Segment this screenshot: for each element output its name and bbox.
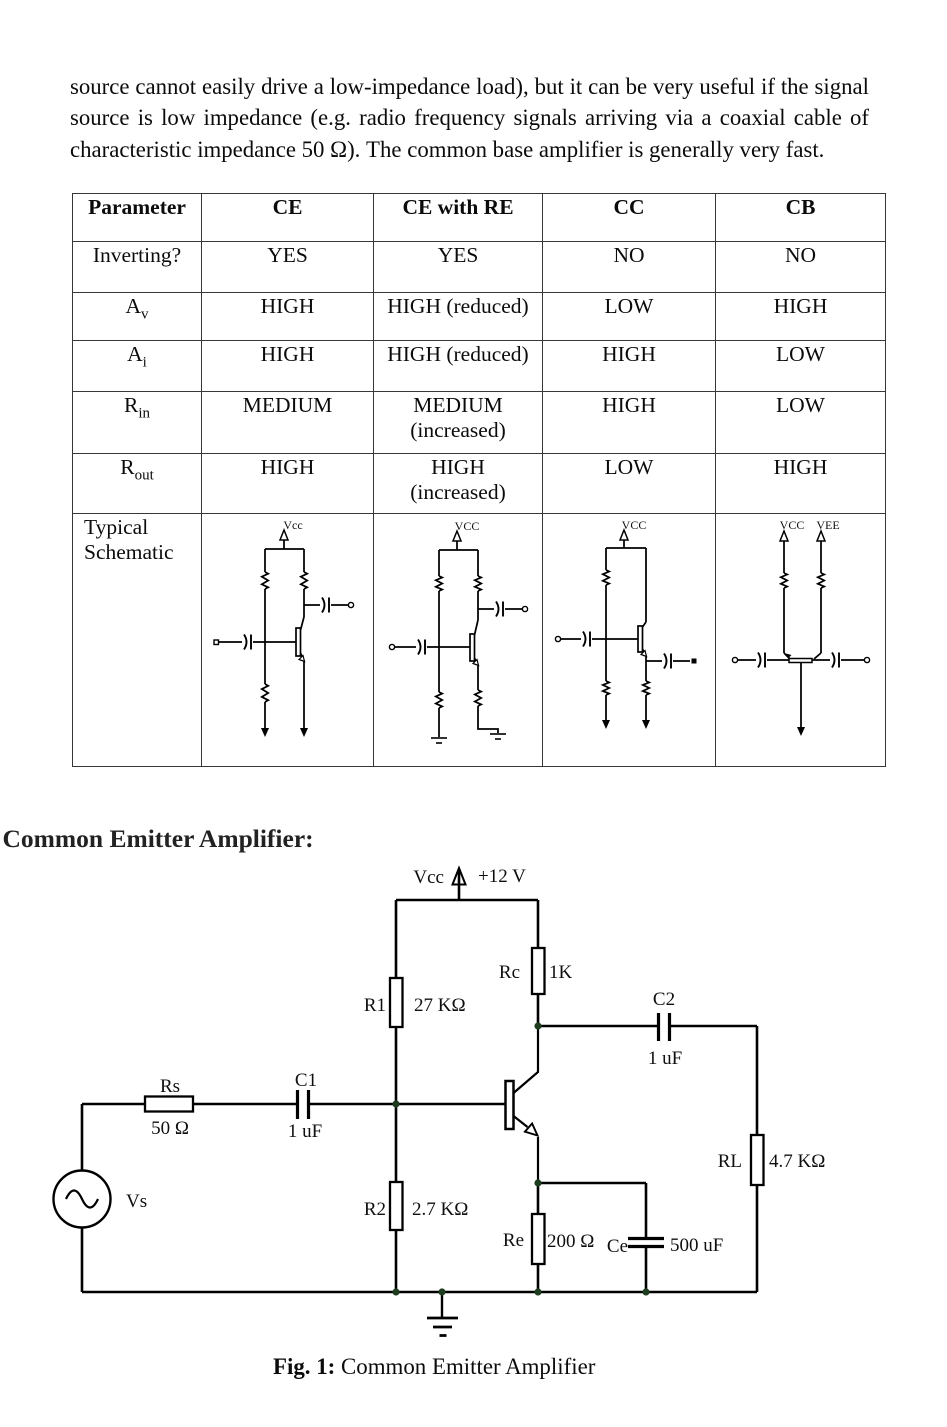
terminal input (CE cell) — [214, 640, 219, 645]
resistor collector (CE-RE cell) — [475, 550, 481, 620]
resistor Re — [532, 1214, 545, 1264]
svg-text:RL: RL — [718, 1151, 742, 1172]
wire Vs bottom to ground rail — [81, 1228, 84, 1292]
wire emitter node to Re — [537, 1183, 540, 1214]
label VEE (CB cell) — [816, 518, 839, 532]
svg-text:VCC: VCC — [780, 518, 805, 532]
terminal input (CC cell) — [555, 636, 560, 641]
label 4.7 KΩ — [769, 1151, 825, 1172]
svg-text:Rs: Rs — [160, 1076, 180, 1097]
label C1 — [295, 1070, 317, 1091]
label RL — [718, 1151, 742, 1172]
svg-text:VCC: VCC — [455, 519, 480, 533]
label Vs — [126, 1191, 147, 1212]
resistor R1 — [390, 978, 403, 1027]
power VCC arrow (CB cell) — [780, 531, 788, 541]
capacitor C1 — [298, 1090, 309, 1119]
svg-text:4.7 KΩ: 4.7 KΩ — [769, 1151, 825, 1172]
resistor Rs — [145, 1097, 193, 1112]
node ground R2 — [392, 1288, 399, 1295]
svg-text:Re: Re — [503, 1230, 524, 1251]
capacitor input (CE-RE cell) — [395, 640, 470, 655]
transistor (CE cell) — [296, 617, 305, 728]
resistor lower bias (CC cell) — [603, 639, 609, 720]
svg-text:Vcc: Vcc — [413, 867, 444, 888]
svg-text:500 uF: 500 uF — [670, 1235, 723, 1256]
label Rc — [499, 962, 520, 983]
label 2.7 KΩ — [412, 1199, 468, 1220]
resistor R1 (CE cell) — [262, 549, 268, 642]
ground emitter (CE-RE cell) — [490, 734, 506, 739]
capacitor output (CE cell) — [304, 598, 348, 613]
terminal input (CB cell) — [732, 657, 737, 662]
wire Ce to ground rail — [645, 1248, 648, 1292]
label VCC (CB cell) — [780, 518, 805, 532]
node ground Re — [534, 1288, 541, 1295]
wire Re to ground rail — [537, 1264, 540, 1292]
ground emitter (CE cell) — [300, 728, 308, 737]
svg-text:200 Ω: 200 Ω — [547, 1231, 594, 1252]
label C2 — [653, 989, 675, 1010]
node collector junction — [534, 1022, 541, 1029]
svg-text:Rc: Rc — [499, 962, 520, 983]
ground emitter (CC cell) — [642, 720, 650, 729]
svg-text:1 uF: 1 uF — [648, 1048, 682, 1069]
wire bottom ground rail — [82, 1291, 757, 1294]
label 500 uF — [670, 1235, 723, 1256]
label Ce — [607, 1236, 628, 1257]
resistor Rc (CE cell) — [301, 549, 307, 617]
source Vs — [54, 1171, 111, 1228]
node ground symbol junction — [438, 1288, 445, 1295]
wire top rail (CE-RE cell) — [439, 549, 478, 551]
svg-text:C2: C2 — [653, 989, 675, 1010]
svg-text:Vs: Vs — [126, 1191, 147, 1212]
svg-text:R1: R1 — [364, 995, 386, 1016]
label R1 — [364, 995, 386, 1016]
svg-text:C1: C1 — [295, 1070, 317, 1091]
capacitor output (CB cell) — [812, 653, 864, 668]
label VCC (CE-RE cell) — [455, 519, 480, 533]
label Rs — [160, 1076, 180, 1097]
wire emitter node to Ce branch — [538, 1182, 646, 1185]
resistor upper bias (CC cell) — [603, 548, 609, 639]
label Vcc (CE cell) — [283, 518, 302, 532]
resistor Rc — [532, 948, 545, 994]
capacitor input (CC cell) — [561, 632, 638, 647]
ground base (CB cell) — [797, 727, 805, 736]
transistor (CB cell) — [784, 653, 821, 663]
svg-text:R2: R2 — [364, 1199, 386, 1220]
wire collector branch (CC cell) — [645, 548, 647, 622]
resistor lower bias (CE-RE cell) — [436, 647, 442, 737]
svg-text:Vcc: Vcc — [283, 518, 302, 532]
wire right branch upper — [537, 900, 540, 948]
terminal output (CB cell) — [864, 657, 869, 662]
wire R1 to base node — [395, 1027, 398, 1104]
svg-text:Ce: Ce — [607, 1236, 628, 1257]
terminal output (CE cell) — [348, 602, 353, 607]
ground symbol — [427, 1292, 458, 1336]
resistor RL — [751, 1135, 764, 1185]
resistor left branch (CB cell) — [781, 541, 787, 653]
label 1K — [549, 962, 573, 983]
resistor emitter (CC cell) — [643, 661, 649, 720]
transistor Q1 — [506, 1026, 539, 1183]
label 1 uF (C1) — [288, 1121, 322, 1142]
wire R2 to ground rail — [395, 1230, 398, 1292]
label R2 — [364, 1199, 386, 1220]
resistor R2 — [390, 1182, 403, 1230]
node ground Ce — [642, 1288, 649, 1295]
resistor upper bias (CE-RE cell) — [436, 550, 442, 647]
svg-text:1 uF: 1 uF — [288, 1121, 322, 1142]
capacitor input (CB cell) — [738, 653, 789, 668]
label +12 V — [478, 866, 526, 887]
wire Vs top to input rail — [81, 1104, 84, 1170]
transistor (CE-RE cell) — [470, 620, 479, 690]
label 27 KΩ — [414, 995, 466, 1016]
label VCC (CC cell) — [622, 518, 647, 532]
wire RL branch upper — [756, 1026, 759, 1135]
ground left (CE-RE cell) — [431, 738, 447, 743]
svg-text:VCC: VCC — [622, 518, 647, 532]
wire RL to ground rail — [756, 1185, 759, 1292]
power VEE arrow (CB cell) — [817, 531, 825, 541]
svg-text:50 Ω: 50 Ω — [151, 1118, 189, 1139]
resistor lower bias (CE cell) — [262, 642, 268, 728]
wire C2 to RL branch — [671, 1025, 757, 1028]
power Vcc terminal — [453, 868, 466, 900]
wire Ce branch upper — [645, 1183, 648, 1237]
capacitor Ce — [628, 1239, 664, 1247]
capacitor C2 — [659, 1013, 670, 1041]
power VCC arrow (CC cell) — [620, 530, 628, 548]
wire base node to R2 — [395, 1104, 398, 1182]
node emitter junction — [534, 1179, 541, 1186]
wire Rc to collector node — [537, 994, 540, 1026]
transistor (CC cell) — [638, 622, 647, 661]
svg-text:VEE: VEE — [816, 518, 839, 532]
wire base node to transistor base — [396, 1103, 505, 1106]
capacitor output (CC cell) — [646, 654, 690, 669]
label 50 Ω — [151, 1118, 189, 1139]
wire top Vcc rail — [396, 899, 538, 902]
wire collector node to C2 — [538, 1025, 657, 1028]
wire top rail (CE cell) — [265, 548, 304, 550]
ground left (CE cell) — [261, 728, 269, 737]
wire input rail from Vs to Rs — [82, 1103, 145, 1106]
label Re — [503, 1230, 524, 1251]
label Vcc — [413, 867, 444, 888]
wire C1 to base node — [310, 1103, 396, 1106]
terminal output (CE-RE cell) — [522, 606, 527, 611]
terminal input (CE-RE cell) — [389, 644, 394, 649]
capacitor input (CE cell) — [219, 635, 296, 650]
terminal output (CC cell) — [692, 659, 697, 664]
svg-text:27 KΩ: 27 KΩ — [414, 995, 466, 1016]
label 1 uF (C2) — [648, 1048, 682, 1069]
svg-text:1K: 1K — [549, 962, 573, 983]
ground left (CC cell) — [602, 720, 610, 729]
wire top rail (CC cell) — [606, 547, 646, 549]
wire Rs to C1 — [193, 1103, 296, 1106]
power Vcc arrow (CE cell) — [280, 530, 288, 549]
wire base to ground (CB cell) — [800, 663, 802, 728]
label 200 Ω — [547, 1231, 594, 1252]
node base junction — [392, 1100, 399, 1107]
resistor right branch (CB cell) — [818, 541, 824, 653]
svg-text:+12 V: +12 V — [478, 866, 526, 887]
wire left branch upper — [395, 900, 398, 978]
svg-text:2.7 KΩ: 2.7 KΩ — [412, 1199, 468, 1220]
power VCC arrow (CE-RE cell) — [453, 531, 461, 550]
resistor emitter RE (CE-RE cell) — [475, 690, 498, 733]
capacitor output (CE-RE cell) — [478, 602, 522, 617]
